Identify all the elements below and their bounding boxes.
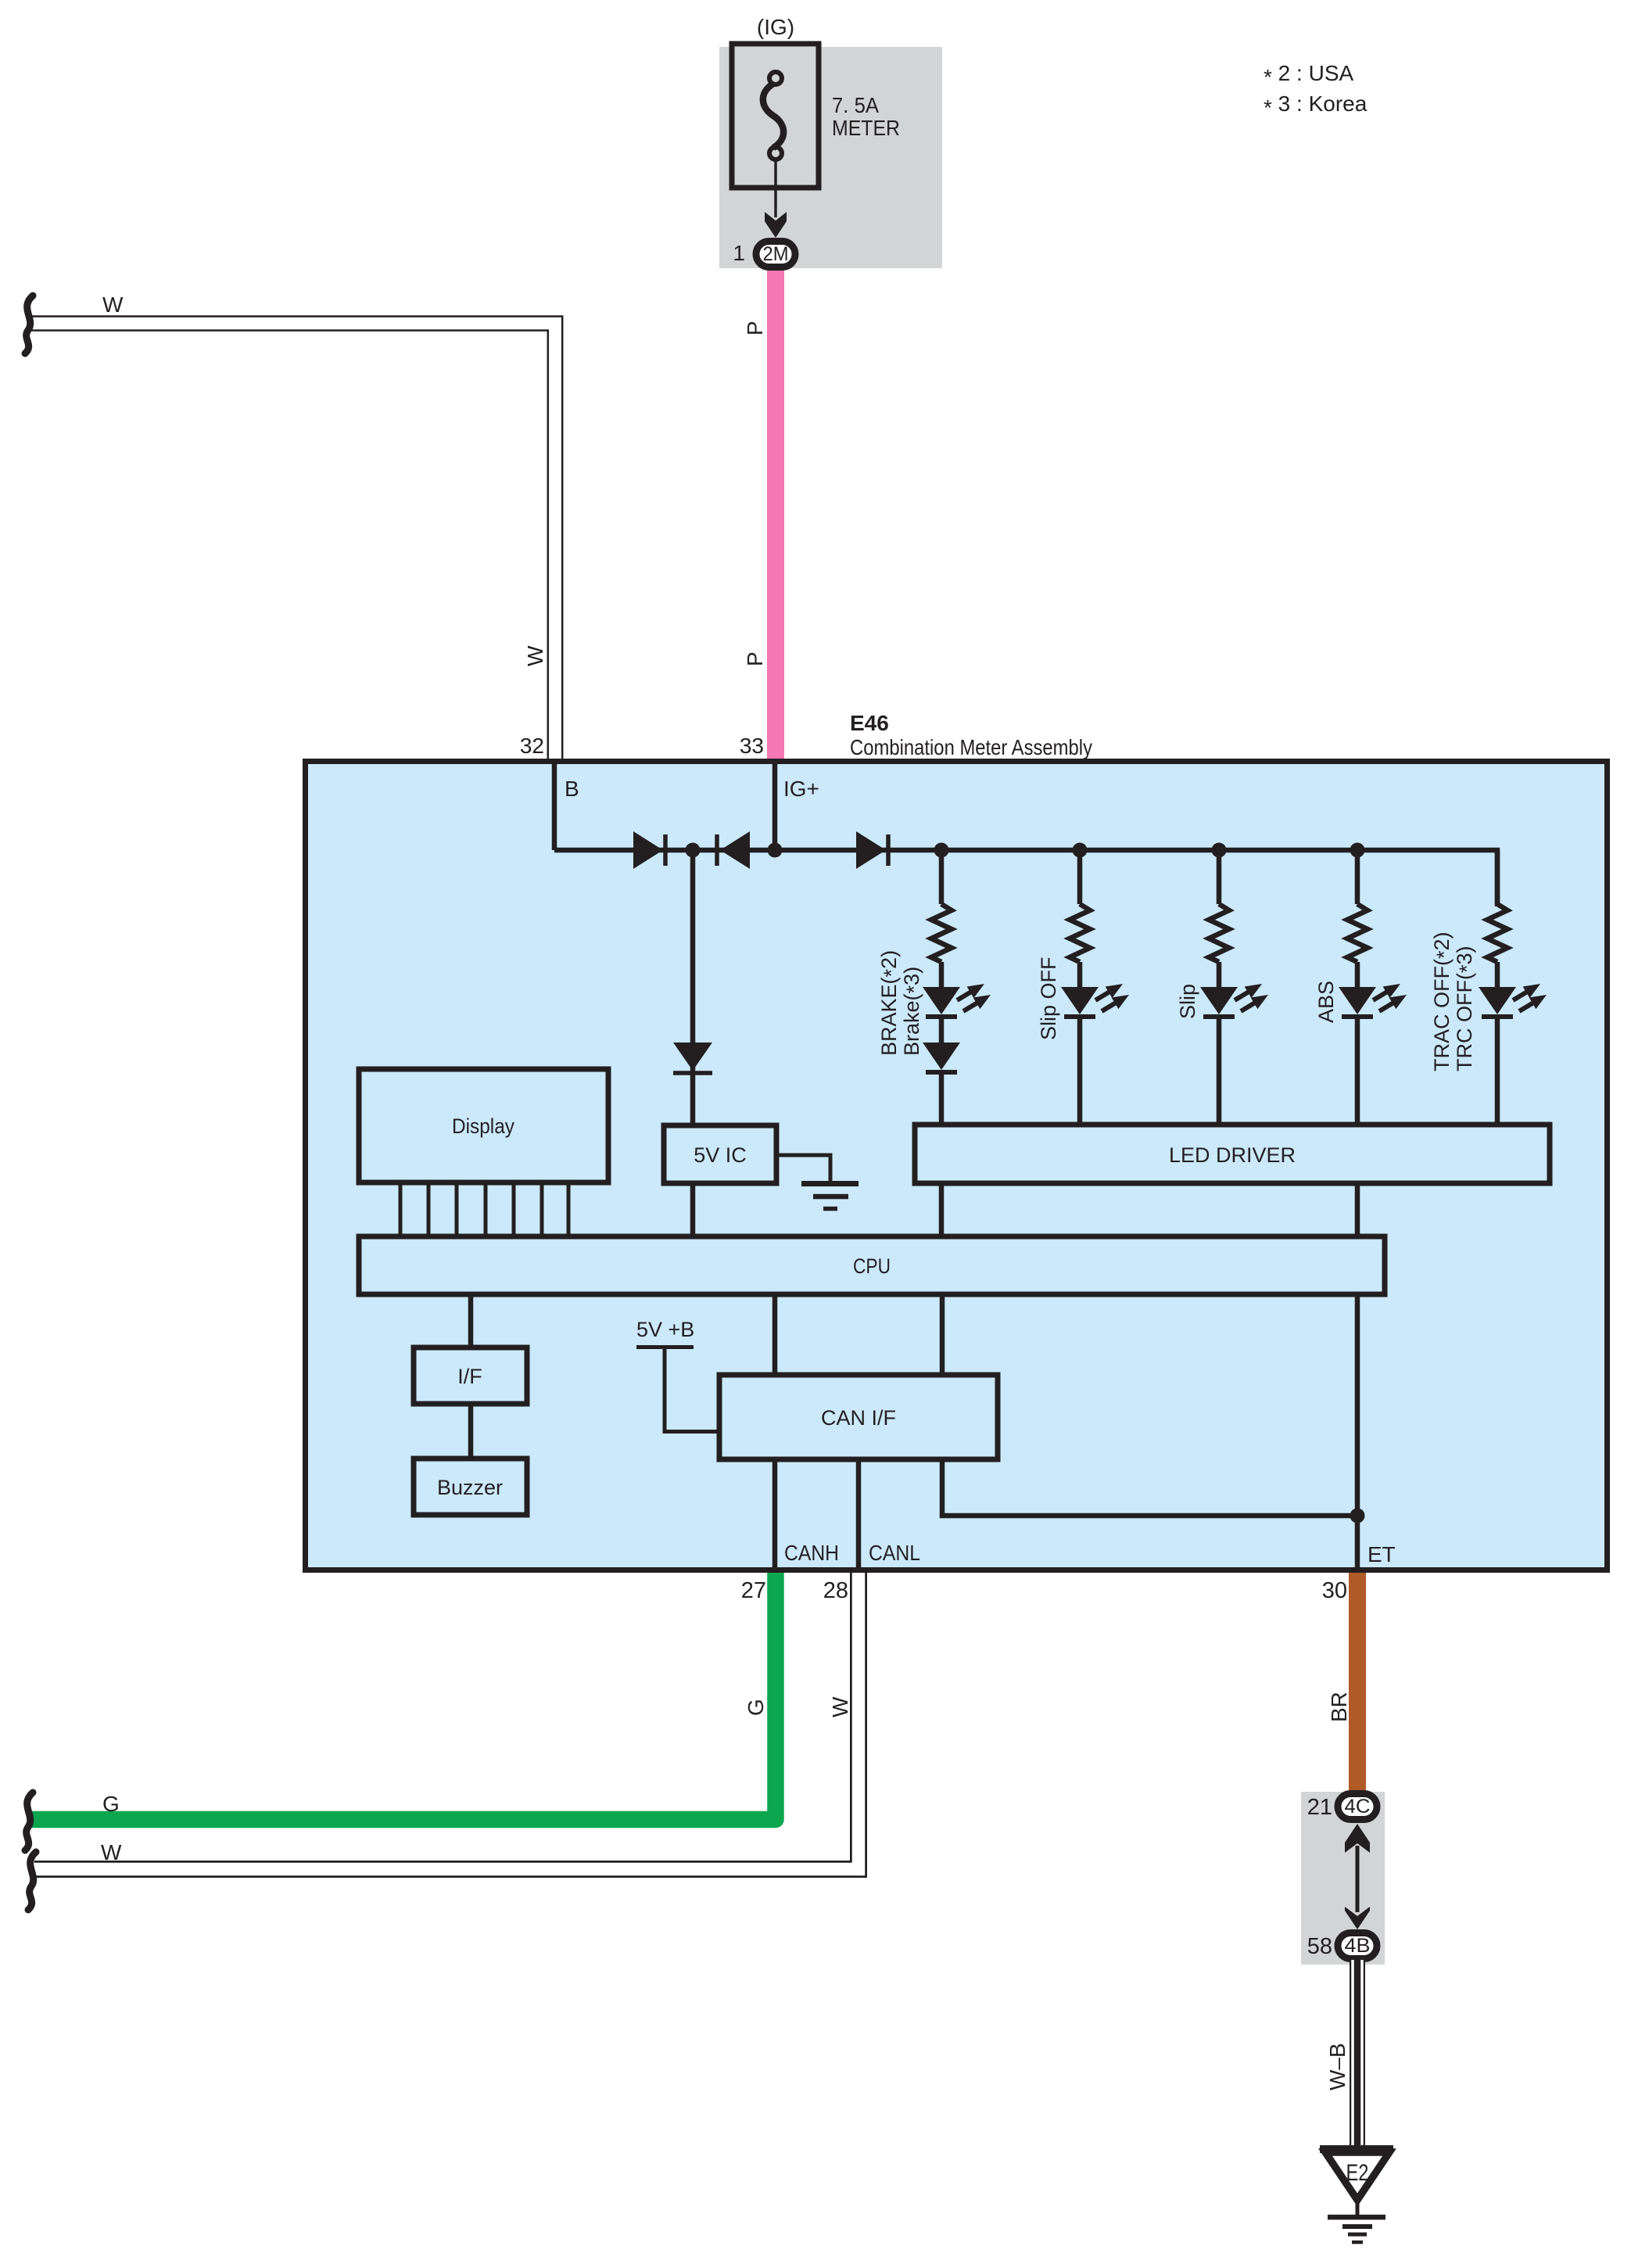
svg-text:Slip OFF: Slip OFF [1037,956,1060,1040]
I/F block [414,1348,527,1404]
svg-text:5V +B: 5V +B [636,1318,694,1341]
off-page squiggle (W wire, top left) [25,296,33,353]
svg-text:CAN I/F: CAN I/F [821,1406,896,1430]
svg-text:LED DRIVER: LED DRIVER [1169,1143,1296,1167]
diode D2 [717,831,750,869]
svg-text:21: 21 [1307,1795,1332,1820]
off-page squiggle (G wire) [25,1793,33,1850]
fuse 7.5A METER [732,44,819,188]
branch2 resistor + LED Slip OFF [1061,850,1129,1017]
wire G (green CANH) [31,1573,776,1820]
branch1 second LED [923,1017,960,1127]
svg-text:27: 27 [741,1578,766,1603]
diode D4 (above 5V IC) [673,1042,712,1073]
junction-block shading (4C/4B) [1301,1792,1385,1965]
svg-text:W: W [102,292,124,317]
svg-text:W–B: W–B [1325,2043,1350,2090]
svg-text:ABS: ABS [1314,981,1338,1023]
svg-text:G: G [744,1699,768,1716]
svg-text:E46: E46 [850,711,889,735]
svg-text:58: 58 [1307,1934,1332,1959]
svg-text:CPU: CPU [853,1254,891,1278]
svg-text:P: P [743,651,767,666]
off-page squiggle (W wire) [28,1852,36,1910]
node junction ET [1350,1509,1365,1523]
svg-text:Buzzer: Buzzer [437,1476,503,1499]
svg-text:* 2 : USA: * 2 : USA [1264,61,1353,89]
svg-text:W: W [523,645,547,666]
svg-text:Combination Meter Assembly: Combination Meter Assembly [850,735,1092,759]
branch1 resistor + LED BRAKE [923,850,991,1017]
wire IG+ vertical [772,762,778,850]
wire W-B (white-black) to ground [1353,1960,1362,2149]
node junction branch1 [934,843,949,858]
svg-text:4C: 4C [1345,1796,1371,1818]
wire 5V IC to CPU [690,1183,696,1239]
svg-text:G: G [102,1792,120,1816]
svg-text:30: 30 [1322,1578,1347,1603]
svg-text:I/F: I/F [457,1365,482,1388]
LED DRIVER block [915,1125,1550,1183]
wire CPU to CAN I/F (left) [772,1294,778,1375]
wire LED DRIVER to CPU (right) [1355,1183,1360,1239]
wire CPU to CAN I/F (right) [940,1294,945,1375]
wire 5V branch vertical [690,850,696,1125]
Buzzer block [414,1459,527,1515]
node junction [686,843,701,858]
arrow into connector 2M [765,212,787,238]
node junction IG+ [768,843,783,858]
svg-text:CANL: CANL [869,1541,920,1565]
svg-text:E2: E2 [1346,2160,1369,2186]
ground (5V IC) [801,1184,859,1209]
wire BR (brown ET) [1349,1573,1366,1793]
svg-text:28: 28 [823,1578,848,1603]
branch3 resistor + LED Slip [1200,850,1268,1017]
diode D1 [633,831,665,869]
svg-text:2M: 2M [763,243,789,265]
svg-text:Brake(*3): Brake(*3) [900,967,926,1056]
svg-text:ET: ET [1368,1542,1396,1566]
diode D3 [856,831,888,869]
svg-text:1: 1 [733,241,745,265]
connector 21 4C [1338,1794,1377,1820]
wire CANH vertical [772,1459,778,1567]
svg-text:33: 33 [740,734,764,758]
wire branch2 to LED DRIVER [1077,1017,1083,1127]
svg-text:TRC OFF(*3): TRC OFF(*3) [1453,946,1479,1071]
wire CPU to I/F [468,1294,474,1348]
svg-text:BR: BR [1327,1692,1351,1722]
svg-text:P: P [743,321,767,336]
ground E2 [1320,2149,1393,2242]
wire CANL vertical [856,1459,862,1567]
node junction branch4 [1350,843,1365,858]
wire branch4 to LED DRIVER [1355,1017,1360,1127]
node junction branch3 [1212,843,1227,858]
E46 Combination Meter Assembly box [306,762,1608,1570]
wire 5V IC to ground [776,1155,830,1181]
wire P (pink) from 2M to IG+ pin 33 [767,266,784,763]
wire diode row [554,850,1497,906]
connector 1 2M [756,242,795,267]
CPU block [359,1236,1385,1294]
node junction branch2 [1073,843,1088,858]
svg-text:7. 5A: 7. 5A [832,93,879,117]
svg-text:B: B [565,777,579,801]
svg-text:CANH: CANH [784,1541,839,1565]
Display pin wires [400,1182,568,1239]
wire W (white CANL) [34,1573,859,1869]
svg-text:IG+: IG+ [783,777,819,801]
connector 58 4B [1338,1933,1377,1959]
svg-text:W: W [101,1840,122,1864]
wire CAN I/F to ET node [942,1459,1357,1516]
svg-text:5V IC: 5V IC [694,1143,747,1167]
Display block [359,1069,608,1182]
CAN I/F block [719,1375,998,1459]
svg-text:* 3 : Korea: * 3 : Korea [1264,92,1368,120]
svg-text:4B: 4B [1345,1935,1371,1957]
wire LED DRIVER to CPU (left) [939,1183,945,1239]
svg-text:W: W [828,1696,852,1717]
wire branch3 to LED DRIVER [1217,1017,1222,1127]
arrow down (to 4B) [1345,1907,1370,1929]
svg-text:Display: Display [452,1114,514,1138]
arrow up (to 4C) [1345,1824,1370,1853]
wire ET vertical [1355,1294,1360,1567]
branch5 resistor + LED TRAC OFF [1479,850,1547,1017]
wire branch5 to LED DRIVER [1495,1017,1500,1127]
svg-text:(IG): (IG) [757,15,794,39]
branch4 resistor + LED ABS [1339,850,1407,1017]
svg-text:32: 32 [520,734,544,758]
wire W (white) from off-page to pin 32 [31,317,562,759]
svg-text:Slip: Slip [1176,984,1199,1019]
wire from fuse to connector 2M [774,160,777,217]
power rail 5V +B [636,1348,719,1432]
wire I/F to Buzzer [468,1404,474,1459]
5V IC block [664,1125,776,1183]
wire between arrows [1356,1846,1360,1912]
junction-block shading (fuse area) [719,47,942,268]
wire B vertical [552,762,557,850]
svg-text:METER: METER [832,116,900,140]
fuse value label 7.5A METER [832,93,900,140]
